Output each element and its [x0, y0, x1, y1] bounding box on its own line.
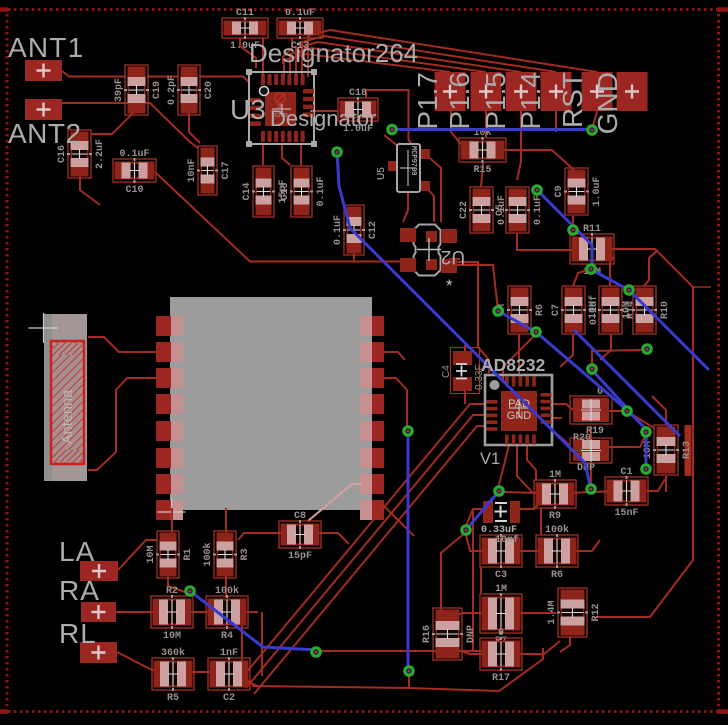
svg-text:R16: R16	[422, 625, 433, 643]
svg-text:P1.6: P1.6	[444, 72, 475, 130]
svg-text:C8: C8	[294, 511, 306, 522]
svg-text:15nF: 15nF	[614, 508, 638, 519]
svg-text:P1.7: P1.7	[412, 72, 443, 130]
svg-text:R9: R9	[549, 511, 561, 522]
svg-text:U5: U5	[376, 167, 387, 180]
svg-text:1.0uF: 1.0uF	[592, 176, 603, 206]
svg-text:ANT2: ANT2	[8, 118, 82, 149]
svg-text:0.1uF: 0.1uF	[119, 149, 149, 160]
svg-text:10M: 10M	[622, 301, 633, 319]
svg-text:R1: R1	[183, 548, 194, 560]
svg-text:1M: 1M	[549, 470, 561, 481]
svg-text:100k: 100k	[215, 585, 239, 597]
svg-text:R10: R10	[660, 301, 671, 319]
svg-text:C14: C14	[242, 182, 253, 200]
svg-text:RST: RST	[557, 72, 588, 128]
svg-text:10nF: 10nF	[187, 158, 198, 182]
svg-text:P1.5: P1.5	[480, 72, 511, 130]
svg-text:1nF: 1nF	[220, 648, 238, 659]
svg-text:R6: R6	[535, 304, 546, 316]
svg-text:0.2pF: 0.2pF	[167, 75, 178, 105]
svg-text:R5: R5	[167, 693, 179, 704]
svg-text:0.33uF: 0.33uF	[481, 525, 517, 536]
svg-text:0.1uF: 0.1uF	[333, 215, 344, 245]
svg-text:R11: R11	[583, 224, 601, 235]
svg-text:15pF: 15pF	[288, 551, 312, 562]
svg-text:V1: V1	[480, 450, 500, 468]
svg-text:10M: 10M	[146, 545, 157, 563]
svg-text:0.1uF: 0.1uF	[285, 8, 315, 19]
svg-text:100k: 100k	[545, 524, 569, 536]
svg-text:*: *	[446, 276, 453, 295]
svg-text:10M: 10M	[588, 301, 599, 319]
svg-text:0.1uF: 0.1uF	[533, 195, 544, 225]
svg-text:C20: C20	[204, 81, 215, 99]
svg-text:39pF: 39pF	[114, 78, 125, 102]
svg-text:10M: 10M	[163, 631, 181, 642]
svg-text:RL: RL	[59, 618, 97, 649]
svg-text:C22: C22	[459, 201, 470, 219]
svg-text:LA: LA	[59, 536, 95, 567]
svg-text:Designator: Designator	[270, 106, 376, 131]
svg-text:C10: C10	[125, 185, 143, 196]
svg-text:U3: U3	[230, 94, 266, 125]
svg-text:R12: R12	[591, 603, 602, 621]
svg-text:C4: C4	[441, 365, 452, 378]
svg-text:C12: C12	[368, 221, 379, 239]
svg-text:0: 0	[498, 628, 504, 639]
svg-text:C15: C15	[280, 182, 291, 200]
svg-text:100k: 100k	[202, 542, 214, 566]
svg-text:R17: R17	[492, 673, 510, 684]
svg-text:Antenna: Antenna	[60, 389, 76, 444]
svg-text:C11: C11	[236, 8, 254, 19]
svg-text:R3: R3	[240, 548, 251, 560]
svg-text:C18: C18	[349, 88, 367, 99]
svg-text:R6: R6	[551, 570, 563, 581]
svg-text:Designator264: Designator264	[249, 38, 418, 68]
svg-text:C17: C17	[221, 161, 232, 179]
svg-text:GND: GND	[592, 72, 623, 134]
svg-text:0.1uF: 0.1uF	[316, 176, 327, 206]
svg-text:C3: C3	[495, 570, 507, 581]
svg-text:ANT1: ANT1	[8, 32, 84, 63]
svg-text:1M: 1M	[495, 584, 507, 595]
svg-text:R2: R2	[166, 586, 178, 597]
svg-text:C2: C2	[223, 693, 235, 704]
svg-text:R4: R4	[221, 631, 233, 642]
svg-text:C1: C1	[620, 467, 632, 478]
svg-text:C5: C5	[495, 204, 506, 216]
svg-text:U2: U2	[441, 246, 465, 267]
svg-text:MCP9700: MCP9700	[409, 146, 417, 175]
svg-text:R20: R20	[573, 433, 591, 444]
svg-text:P1.4: P1.4	[515, 72, 546, 130]
svg-text:1.4M: 1.4M	[547, 600, 558, 624]
svg-text:C9: C9	[554, 185, 565, 197]
svg-text:2.2uF: 2.2uF	[95, 139, 106, 169]
svg-text:RA: RA	[59, 575, 100, 606]
svg-text:C7: C7	[551, 304, 562, 316]
svg-text:AD8232: AD8232	[481, 355, 545, 375]
svg-text:R13: R13	[682, 441, 693, 459]
svg-text:DNP: DNP	[466, 625, 477, 643]
svg-text:R15: R15	[473, 165, 491, 176]
svg-text:C19: C19	[152, 81, 163, 99]
svg-text:360k: 360k	[161, 647, 185, 659]
